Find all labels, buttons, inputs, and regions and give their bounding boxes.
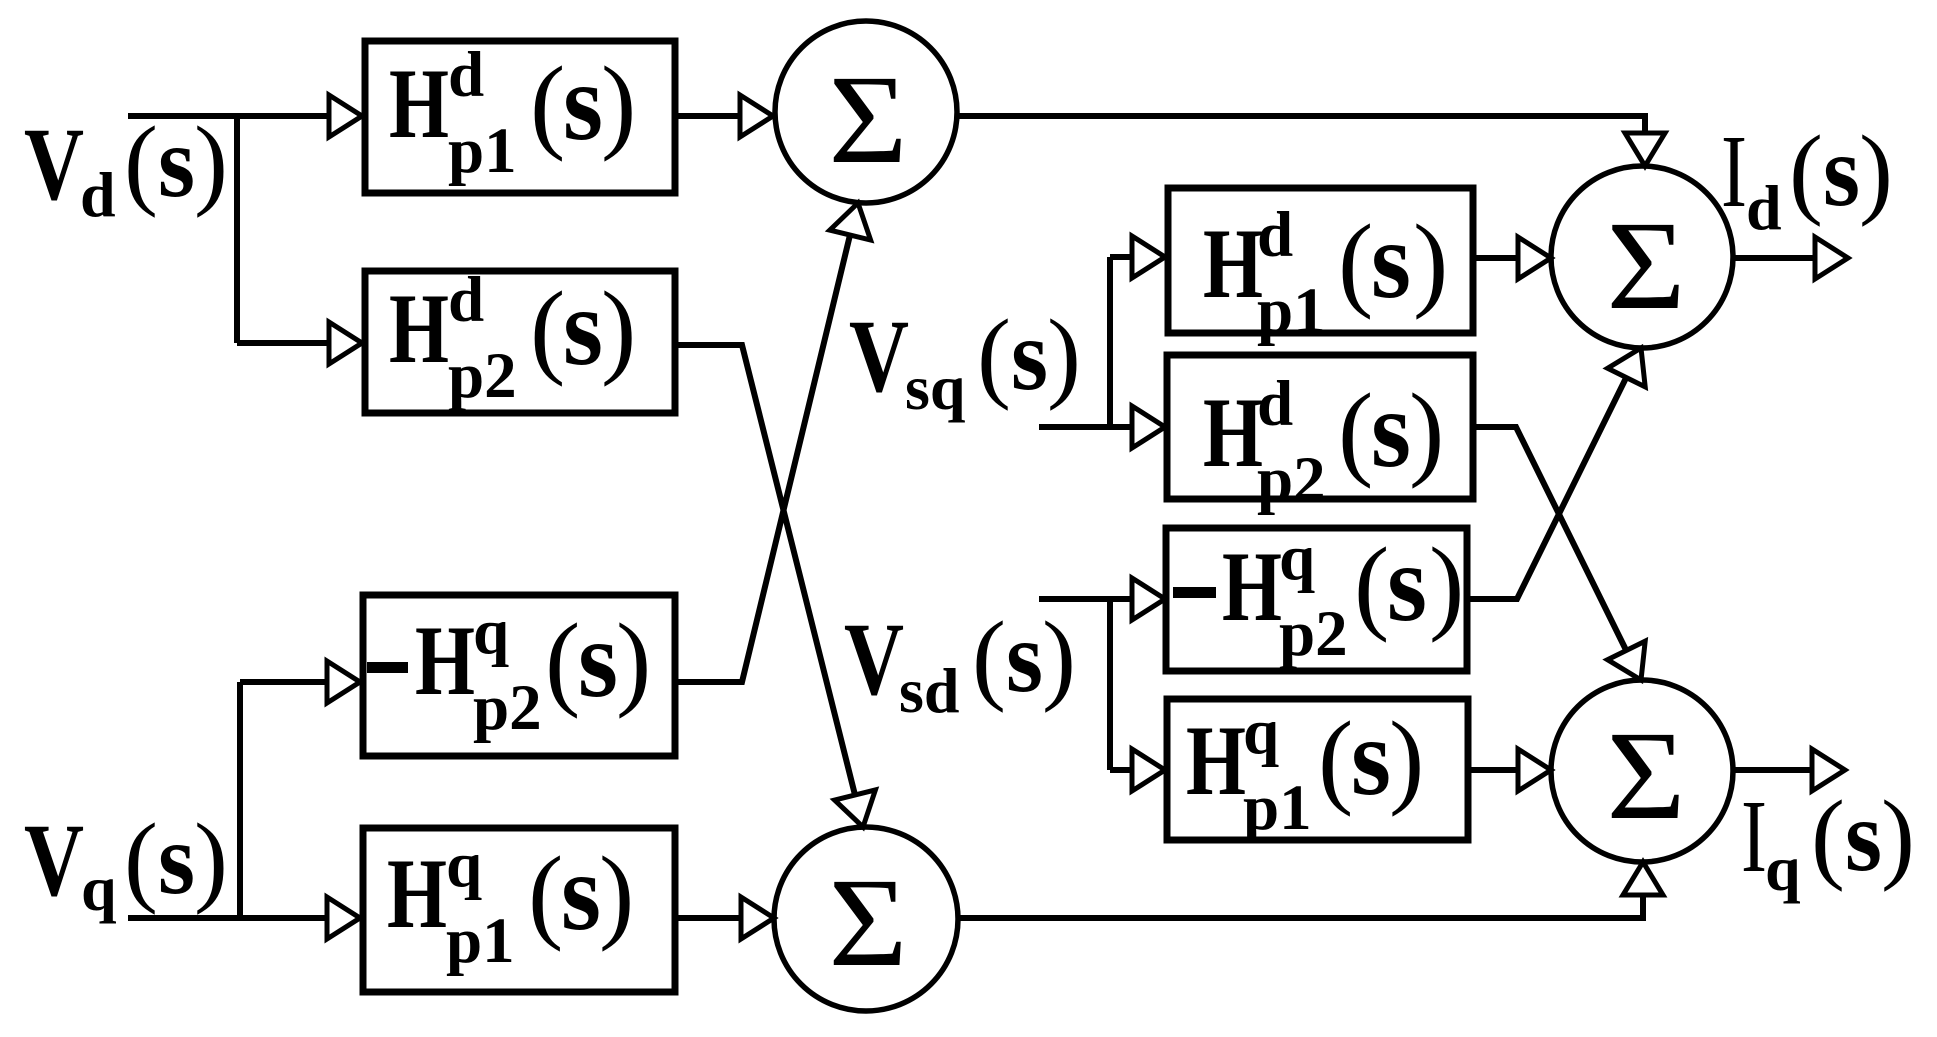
svg-text:p1: p1 [1257, 275, 1326, 347]
svg-text:(: ( [972, 601, 1006, 714]
svg-text:(: ( [977, 299, 1011, 412]
arrowhead diagonal into summing junction S1 bottom [830, 203, 871, 240]
summing junction S1 top-left [775, 21, 957, 203]
svg-text:d: d [448, 264, 484, 336]
wire Vsd to block R3 [1039, 596, 1132, 602]
node Vsq(s) label [849, 299, 1081, 423]
arrowhead into block L3 -Hp2q [327, 661, 360, 703]
svg-text:s: s [1845, 780, 1882, 893]
svg-text:H: H [1203, 208, 1263, 319]
svg-text:q: q [446, 829, 482, 901]
svg-text:(: ( [1354, 526, 1389, 643]
block R3 minus Hp2q(s) [1166, 522, 1467, 671]
svg-text:H: H [387, 838, 447, 949]
svg-text:): ) [1047, 299, 1081, 412]
block R2 Hp2d(s) [1167, 355, 1473, 516]
svg-text:(: ( [530, 45, 565, 162]
svg-text:): ) [194, 106, 228, 219]
node Vsd(s) label [844, 601, 1076, 726]
svg-text:V: V [844, 602, 904, 717]
arrowhead into block L4 Hp1q [327, 897, 360, 939]
arrowhead down into summing junction S3 top [1625, 133, 1665, 166]
arrowhead up into summing junction S4 bottom [1623, 862, 1663, 895]
arrowhead into block R4 Hp1q [1132, 749, 1165, 791]
svg-text:q: q [1279, 522, 1315, 594]
wire Vsq to block R2 [1039, 424, 1132, 430]
block L3 minus Hp2q(s) [363, 595, 675, 756]
svg-text:V: V [24, 107, 84, 222]
svg-text:s: s [1387, 522, 1427, 644]
svg-text:s: s [563, 266, 603, 388]
svg-text:s: s [1351, 696, 1391, 818]
svg-text:Σ: Σ [1606, 706, 1685, 846]
wire block R3 diagonal up to summing junction S3 [1470, 378, 1626, 599]
svg-text:): ) [1042, 601, 1076, 714]
svg-text:d: d [448, 39, 484, 111]
svg-text:Σ: Σ [1606, 196, 1685, 336]
node Vq(s) input label [24, 803, 228, 924]
svg-text:s: s [578, 598, 618, 720]
svg-text:s: s [1371, 199, 1411, 321]
summing junction S3 top-right [1551, 166, 1733, 348]
svg-text:I: I [1721, 114, 1747, 229]
svg-text:p2: p2 [1279, 598, 1348, 670]
svg-text:): ) [1409, 372, 1444, 489]
wire block R2 diagonal down to summing junction S4 [1473, 427, 1626, 650]
wire block L1 to summing junction S1 [678, 113, 740, 119]
svg-text:Σ: Σ [828, 853, 907, 993]
arrowhead diagonal into summing junction S2 top [835, 790, 876, 827]
svg-text:H: H [389, 273, 449, 384]
svg-text:H: H [415, 605, 475, 716]
svg-text:s: s [561, 831, 601, 953]
wire Vq branch up to block Hp2q [240, 682, 327, 918]
svg-text:s: s [563, 41, 603, 163]
block R4 Hp1q(s) [1167, 696, 1468, 844]
svg-text:Σ: Σ [828, 50, 907, 190]
arrowhead output Id [1815, 237, 1848, 279]
svg-text:(: ( [1318, 700, 1353, 817]
arrowhead into block L2 Hp2d [329, 322, 362, 364]
svg-text:(: ( [1338, 372, 1373, 489]
svg-text:): ) [194, 803, 228, 916]
arrowhead into block R3 -Hp2q [1132, 578, 1165, 620]
wire summing junction S4 output [1733, 767, 1812, 773]
arrowhead into block R1 Hp1d [1132, 236, 1165, 278]
svg-text:d: d [80, 159, 116, 230]
arrowhead into summing junction S4 left [1518, 749, 1551, 791]
svg-text:(: ( [530, 270, 565, 387]
arrowhead diagonal into summing junction S3 bottom [1608, 348, 1646, 387]
arrowhead into summing junction S1 left [740, 95, 773, 137]
svg-text:): ) [601, 270, 636, 387]
svg-text:s: s [1011, 299, 1048, 412]
svg-text:sq: sq [905, 352, 966, 423]
svg-text:): ) [1389, 700, 1424, 817]
svg-text:q: q [1765, 833, 1801, 904]
svg-text:): ) [1881, 780, 1915, 893]
svg-text:I: I [1741, 779, 1767, 894]
svg-text:H: H [1222, 531, 1282, 642]
svg-text:(: ( [545, 602, 580, 719]
svg-text:H: H [1186, 705, 1246, 816]
svg-text:s: s [158, 803, 195, 916]
wire block R1 to summing junction S3 [1473, 255, 1518, 261]
svg-text:(: ( [1811, 780, 1845, 893]
svg-text:d: d [1257, 368, 1293, 440]
svg-text:H: H [1203, 377, 1263, 488]
svg-text:(: ( [1789, 115, 1823, 228]
wire Vsq branch up to block R1 [1110, 257, 1132, 427]
arrowhead into block R2 Hp2d [1132, 406, 1165, 448]
svg-text:(: ( [124, 803, 158, 916]
summing junction S4 bottom-right [1551, 680, 1733, 862]
svg-text:q: q [1243, 696, 1279, 768]
wire Vd branch down to block Hp2d [237, 116, 329, 343]
svg-text:): ) [599, 835, 634, 952]
wire summing junction S2 to summing junction S4 [958, 895, 1643, 918]
arrowhead into summing junction S2 left [741, 897, 774, 939]
block L4 Hp1q(s) [363, 828, 675, 992]
svg-text:d: d [1257, 199, 1293, 271]
svg-text:s: s [1823, 115, 1860, 228]
svg-text:d: d [1746, 172, 1782, 243]
svg-text:V: V [24, 803, 84, 918]
arrowhead into block L1 Hp1d [329, 95, 362, 137]
svg-text:s: s [1371, 368, 1411, 490]
wire summing junction S3 output [1733, 255, 1815, 261]
wire block L2 diagonal down to summing junction S2 [678, 345, 855, 795]
svg-text:(: ( [528, 835, 563, 952]
block L2 Hp2d(s) [365, 264, 675, 413]
svg-text:): ) [1429, 526, 1464, 643]
svg-text:(: ( [124, 106, 158, 219]
arrowhead output Iq [1812, 749, 1845, 791]
wire Vd input to block Hp1d [128, 113, 329, 119]
wire summing junction S1 to summing junction S3 [957, 116, 1645, 133]
wire Vq input to block Hp1q [128, 915, 327, 921]
node Iq(s) output label [1741, 779, 1915, 904]
svg-text:V: V [849, 299, 909, 414]
wire block L3 diagonal up to summing junction S1 [678, 235, 850, 682]
svg-text:p1: p1 [1243, 772, 1312, 844]
svg-text:(: ( [1338, 203, 1373, 320]
svg-text:p2: p2 [448, 340, 517, 412]
svg-text:s: s [158, 106, 195, 219]
svg-text:q: q [473, 596, 509, 668]
svg-text:p1: p1 [446, 905, 515, 977]
node Id(s) output label [1721, 114, 1893, 243]
block L1 Hp1d(s) [365, 39, 675, 193]
summing junction S2 bottom-left [774, 827, 958, 1011]
svg-text:): ) [616, 602, 651, 719]
svg-text:): ) [1413, 203, 1448, 320]
node Vd(s) input label [24, 106, 228, 230]
wire block L4 to summing junction S2 [678, 915, 741, 921]
svg-text:): ) [1859, 115, 1893, 228]
svg-text:p1: p1 [448, 115, 517, 187]
svg-text:sd: sd [899, 655, 960, 726]
arrowhead diagonal into summing junction S4 top [1608, 641, 1646, 680]
arrowhead into summing junction S3 left [1518, 237, 1551, 279]
wire Vsd branch down to block R4 [1110, 599, 1132, 770]
block R1 Hp1d(s) [1168, 188, 1473, 347]
wire block R4 to summing junction S4 [1471, 767, 1518, 773]
svg-text:s: s [1006, 601, 1043, 714]
svg-text:q: q [81, 853, 117, 924]
svg-text:): ) [601, 45, 636, 162]
svg-text:H: H [389, 48, 449, 159]
svg-text:p2: p2 [1257, 444, 1326, 516]
svg-text:p2: p2 [473, 672, 542, 744]
